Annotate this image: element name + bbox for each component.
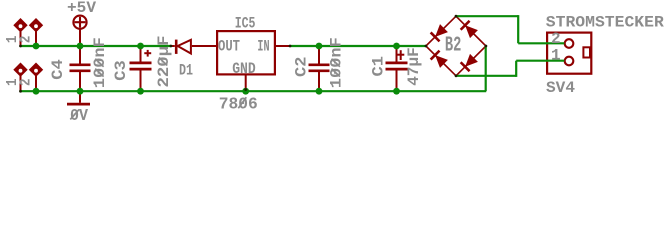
svg-text:47µF: 47µF: [405, 47, 423, 86]
svg-text:OUT: OUT: [218, 37, 240, 55]
svg-text:2: 2: [19, 36, 35, 44]
svg-text:2: 2: [19, 79, 35, 87]
svg-text:D1: D1: [179, 61, 193, 79]
svg-text:1: 1: [551, 46, 561, 64]
svg-text:SV4: SV4: [546, 79, 575, 97]
svg-text:C1: C1: [370, 56, 388, 77]
svg-text:0V: 0V: [70, 107, 89, 123]
svg-text:C3: C3: [112, 60, 130, 81]
svg-text:B2: B2: [445, 34, 462, 57]
svg-text:7806: 7806: [219, 95, 258, 114]
svg-text:IC5: IC5: [235, 15, 256, 33]
svg-text:IN: IN: [257, 37, 269, 55]
svg-text:STROMSTECKER: STROMSTECKER: [546, 14, 665, 32]
svg-text:2: 2: [551, 30, 561, 48]
svg-text:+5V: +5V: [67, 0, 97, 17]
svg-text:C2: C2: [292, 56, 310, 77]
svg-text:C4: C4: [49, 59, 67, 80]
svg-text:GND: GND: [232, 60, 256, 78]
